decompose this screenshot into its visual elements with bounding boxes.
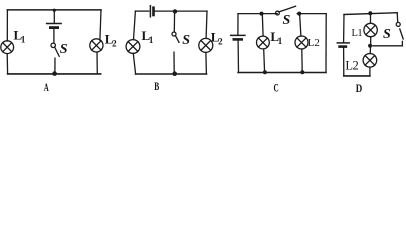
- wire B left upper: [134, 11, 136, 40]
- wire C top right: [297, 13, 326, 15]
- wire C branch1 lower: [263, 49, 266, 72]
- lamp L2 (A): [90, 39, 103, 52]
- junction B bottom: [172, 71, 177, 76]
- wire C bottom: [238, 72, 326, 74]
- junction A bottom: [52, 71, 57, 76]
- svg-text:A: A: [44, 80, 49, 94]
- switch S (B) blade: [176, 36, 179, 43]
- svg-text:L2: L2: [308, 37, 320, 49]
- svg-text:L1: L1: [142, 28, 154, 45]
- junction C top left: [260, 12, 264, 16]
- junction C top right: [297, 12, 301, 16]
- junction D mid: [368, 44, 372, 48]
- svg-text:S: S: [283, 13, 291, 28]
- wire D left upper: [343, 15, 345, 43]
- wire C left upper: [237, 14, 239, 35]
- wire B right upper: [205, 11, 208, 38]
- wire A switch to bottom: [54, 58, 56, 74]
- wire D lamp1 to node: [370, 37, 372, 45]
- wire A right lower: [96, 52, 98, 74]
- battery (A) short thick plate: [50, 26, 57, 29]
- junction B top: [173, 9, 177, 13]
- wire C top left: [238, 13, 277, 15]
- battery (A) long plate: [47, 23, 62, 25]
- battery (C) long plate: [231, 34, 245, 36]
- switch S (D) pivot: [396, 22, 400, 26]
- svg-text:L2: L2: [211, 29, 223, 46]
- junction D top: [368, 11, 372, 15]
- svg-text:S: S: [383, 27, 391, 42]
- wire B top right: [155, 10, 207, 12]
- svg-text:L1: L1: [352, 28, 363, 39]
- wire C branch2 upper: [300, 14, 301, 36]
- wire C branch2 lower: [301, 49, 303, 73]
- switch S (D) blade: [400, 29, 403, 39]
- wire D bottom: [344, 75, 370, 77]
- lamp L2 (C): [295, 36, 308, 49]
- wire A battery to switch: [53, 29, 55, 43]
- battery (D) long plate: [337, 42, 349, 44]
- junction A top: [53, 9, 56, 12]
- svg-text:B: B: [154, 79, 159, 93]
- wire C left lower: [237, 41, 239, 73]
- wire A left upper: [6, 10, 8, 41]
- switch S (A) blade: [55, 47, 59, 56]
- switch S (A) pivot: [51, 43, 55, 47]
- svg-text:L1: L1: [270, 29, 282, 46]
- svg-text:L2: L2: [105, 31, 117, 48]
- wire D right upper: [396, 13, 399, 23]
- wire D node to lamp2: [369, 48, 371, 54]
- wire B bottom: [136, 73, 207, 75]
- svg-text:S: S: [182, 33, 190, 48]
- svg-text:D: D: [356, 81, 363, 95]
- wire C branch1 upper: [261, 14, 264, 36]
- battery (D) short thick plate: [340, 45, 346, 48]
- lamp L2 (D): [363, 54, 377, 68]
- battery (B) long plate: [149, 6, 151, 17]
- circuit D: [337, 11, 403, 95]
- circuit A: [1, 9, 117, 94]
- junction C bottom left: [263, 70, 267, 74]
- lamp L1 (B): [126, 40, 140, 54]
- wire A right upper: [100, 10, 101, 40]
- wire A top: [7, 9, 101, 11]
- lamp L1 (A): [1, 41, 14, 54]
- lamp L2 (B): [199, 38, 213, 52]
- wire B mid upper: [173, 11, 175, 32]
- lamp L1 (C): [257, 36, 270, 49]
- switch S (C) pivot: [276, 11, 280, 15]
- wire A bottom: [8, 73, 101, 75]
- wire D left lower: [343, 48, 345, 76]
- junction C bottom right: [300, 70, 304, 74]
- wire B right lower: [205, 52, 208, 74]
- svg-text:L1: L1: [14, 27, 26, 44]
- battery (B) short thick plate: [152, 8, 155, 15]
- switch S (C) blade: [279, 6, 295, 12]
- wire B left lower: [133, 53, 135, 74]
- wire D top: [344, 13, 397, 15]
- circuit C: [231, 6, 327, 94]
- wire C right: [325, 14, 327, 73]
- svg-text:S: S: [60, 42, 68, 57]
- wire D right to node: [373, 41, 403, 45]
- wire D lamp2 lower: [369, 67, 371, 76]
- wire A left lower: [6, 54, 8, 74]
- wire D lamp1 lead: [370, 14, 372, 24]
- switch S (B) pivot: [172, 32, 176, 36]
- wire A battery lead: [53, 10, 55, 23]
- svg-text:C: C: [274, 80, 279, 94]
- lamp L1 (D): [364, 23, 377, 36]
- battery (C) short thick plate: [234, 38, 242, 41]
- wire B mid lower: [173, 52, 175, 74]
- svg-text:L2: L2: [345, 58, 358, 72]
- circuit B: [126, 6, 223, 93]
- wire B top left: [135, 10, 148, 12]
